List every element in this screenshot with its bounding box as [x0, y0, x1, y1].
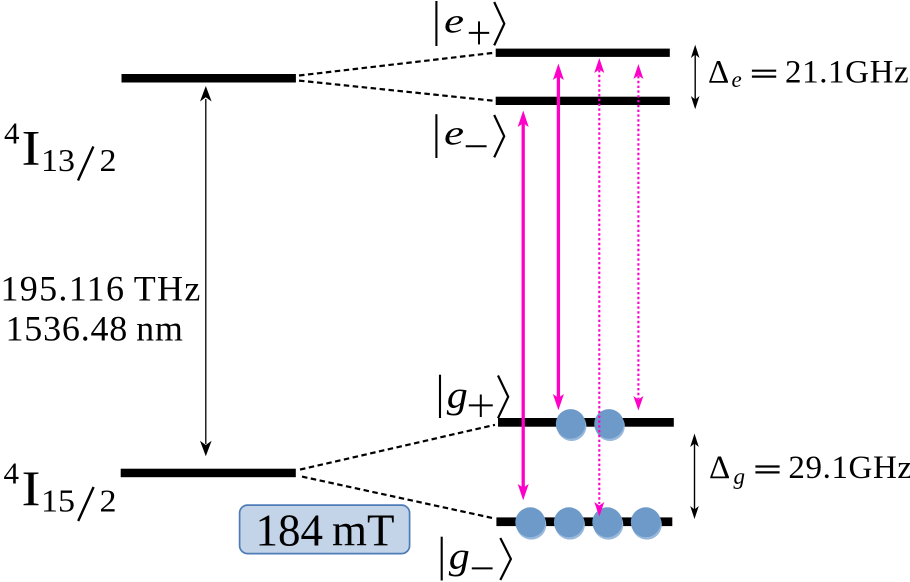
level line |e+> — [496, 49, 670, 57]
svg-text:g: g — [447, 375, 468, 417]
magenta dashed arrow e+ to g- — [594, 58, 604, 517]
svg-text:29.1GHz: 29.1GHz — [788, 450, 910, 486]
svg-text:195.116 THz: 195.116 THz — [1, 269, 202, 309]
population circle g- 4 — [631, 507, 662, 539]
vertical double arrow 195 THz — [200, 86, 212, 456]
term label 4I15/2 — [4, 456, 117, 521]
svg-text:13: 13 — [41, 142, 75, 178]
svg-text:1536.48 nm: 1536.48 nm — [6, 309, 184, 349]
svg-text:15: 15 — [41, 483, 75, 519]
population circle g- 2 — [554, 507, 585, 539]
svg-text:e: e — [444, 1, 464, 40]
svg-text:I: I — [22, 119, 41, 175]
magenta solid arrow e+ to g+ — [553, 64, 564, 411]
svg-text:I: I — [22, 460, 41, 516]
magenta solid arrow e- to g- — [518, 111, 529, 501]
level line |e-> — [496, 97, 670, 105]
svg-text:2: 2 — [100, 142, 117, 178]
dashed connector lower-left to g+ — [300, 425, 495, 470]
svg-text:2: 2 — [100, 483, 117, 519]
svg-text:4: 4 — [4, 116, 20, 151]
svg-text:184 mT: 184 mT — [256, 506, 395, 556]
delta-e double arrow — [691, 45, 700, 110]
svg-text:Δ: Δ — [709, 450, 730, 486]
ket |g+> — [440, 375, 508, 419]
level line |g+> — [498, 418, 674, 427]
magenta dashed arrow e+ to g+ — [633, 64, 643, 411]
population circle g+ 2 — [594, 409, 625, 441]
level line 4I13/2 (left upper) — [122, 74, 296, 83]
svg-text:g: g — [734, 464, 746, 489]
svg-text:e: e — [732, 67, 742, 92]
delta-g double arrow — [690, 434, 699, 520]
label delta-e = 21.1 GHz — [708, 54, 909, 92]
dashed connector upper-left to e+ — [299, 53, 494, 76]
svg-text:4: 4 — [4, 456, 20, 491]
term label 4I13/2 — [4, 116, 117, 181]
svg-text:Δ: Δ — [708, 54, 729, 90]
label delta-g = 29.1 GHz — [709, 450, 910, 489]
184 mT box — [240, 505, 410, 553]
ket |e-> — [436, 114, 504, 159]
level line |g-> — [496, 517, 672, 526]
dashed connector upper-left to e- — [299, 81, 494, 101]
ket |g-> — [442, 536, 511, 581]
dashed connector lower-left to g- — [302, 477, 492, 518]
population circle g- 1 — [515, 507, 546, 539]
svg-text:21.1GHz: 21.1GHz — [785, 54, 909, 90]
svg-text:g: g — [449, 536, 470, 578]
svg-text:e: e — [444, 114, 464, 153]
ket |e+> — [436, 1, 504, 46]
level line 4I15/2 (left lower) — [121, 469, 296, 478]
population circle g- 3 — [592, 507, 623, 539]
population circle g+ 1 — [556, 409, 587, 441]
